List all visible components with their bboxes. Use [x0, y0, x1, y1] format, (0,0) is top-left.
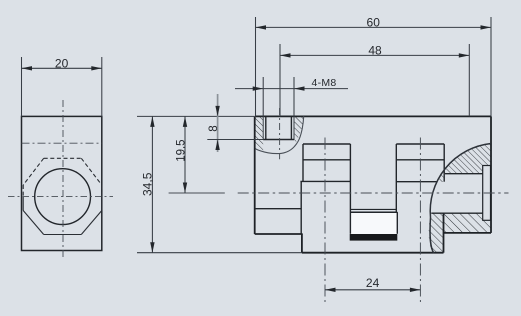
- svg-text:48: 48: [368, 43, 382, 57]
- svg-text:60: 60: [367, 15, 381, 29]
- svg-text:24: 24: [366, 276, 380, 290]
- svg-text:4-M8: 4-M8: [311, 77, 336, 89]
- svg-text:19.5: 19.5: [176, 139, 188, 161]
- svg-text:34,5: 34,5: [141, 172, 155, 196]
- svg-text:8: 8: [208, 125, 220, 131]
- svg-text:20: 20: [55, 56, 69, 70]
